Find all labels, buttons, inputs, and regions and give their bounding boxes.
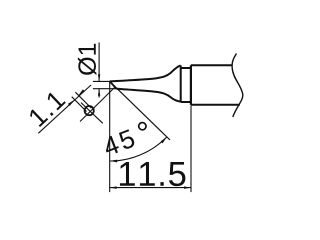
dim o1 line lower	[98, 89, 100, 98]
dim 11.5 arrow left	[110, 186, 117, 189]
dim 1.1 text	[30, 93, 66, 127]
left vertical extension	[109, 81, 111, 192]
tip bottom profile	[117, 89, 181, 102]
right vertical extension	[190, 106, 192, 193]
body top edge	[191, 64, 233, 66]
dim 11.5 line	[110, 187, 191, 189]
collar ring	[181, 65, 191, 102]
angle arc	[110, 137, 167, 161]
dim o1 extension top	[93, 80, 110, 82]
dim 11.5 arrow right	[184, 186, 191, 189]
arc arrow upper	[161, 137, 167, 143]
dim o1 arrow up	[98, 89, 100, 96]
dim 11.5 text	[120, 162, 185, 186]
tip face 45 degree cut	[110, 81, 117, 88]
face circle	[85, 106, 94, 115]
arc arrow left	[110, 160, 118, 163]
face circle cross line	[81, 103, 103, 124]
tip top profile	[110, 65, 181, 81]
body bottom edge	[191, 104, 240, 106]
45 degree leg	[110, 81, 170, 140]
face circle axis leader	[80, 87, 115, 122]
dim o1 line upper	[98, 43, 100, 82]
dim 1.1 line	[38, 85, 91, 133]
45 degree text	[106, 122, 147, 154]
body left edge	[190, 65, 192, 105]
dim 1.1 extension a	[72, 97, 87, 112]
dim o1 extension bottom	[93, 88, 117, 90]
dim o1 text	[78, 44, 97, 75]
dim 1.1 extension b	[75, 92, 91, 108]
break line S-curve	[232, 54, 243, 118]
dim 1.1 arrow lower	[68, 100, 75, 106]
dim 1.1 arrow upper	[78, 89, 85, 95]
dim o1 arrow down	[98, 74, 100, 81]
